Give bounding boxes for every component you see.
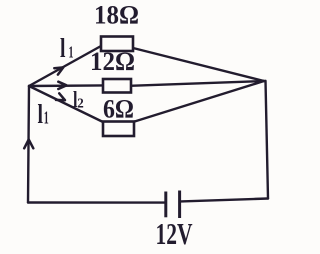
- svg-text:l: l: [60, 33, 66, 63]
- svg-text:2: 2: [77, 96, 84, 111]
- arrow I1 on top branch: [54, 67, 63, 74]
- battery plate right: [178, 191, 181, 219]
- wire right vertical branch: [266, 81, 269, 199]
- wire left vertical branch: [28, 86, 29, 203]
- resistor R3 6 ohm body: [103, 122, 134, 137]
- resistor R1 18 ohm body: [101, 37, 133, 52]
- wire R1 right lead to node B: [133, 48, 264, 81]
- svg-text:1: 1: [44, 108, 49, 128]
- wire bottom left to battery: [28, 201, 165, 204]
- svg-text:18Ω: 18Ω: [94, 1, 139, 30]
- wire node A to R1 (18 ohm) left lead: [29, 46, 101, 86]
- svg-text:l: l: [38, 99, 44, 129]
- wire battery to bottom right corner: [181, 199, 268, 202]
- svg-text:12V: 12V: [156, 216, 193, 251]
- svg-text:12Ω: 12Ω: [90, 47, 135, 76]
- wire R3 right lead to node B: [133, 81, 264, 122]
- wire node A to R2 (12 ohm) left lead: [29, 84, 103, 87]
- wire node A to R3 (6 ohm) left lead: [29, 86, 103, 122]
- battery plate left: [164, 192, 167, 218]
- arrow I2 on middle branch: [58, 82, 66, 89]
- arrow I1 on left vertical wire: [24, 140, 33, 149]
- svg-text:1: 1: [69, 43, 74, 62]
- resistor R2 12 ohm body: [103, 79, 131, 93]
- wire R2 right lead to node B: [130, 81, 264, 86]
- svg-text:6Ω: 6Ω: [103, 95, 134, 124]
- arrow on bottom branch: [56, 93, 65, 100]
